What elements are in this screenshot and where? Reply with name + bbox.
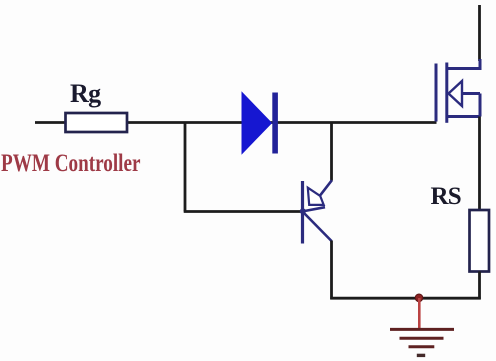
svg-text:RS: RS bbox=[431, 183, 461, 210]
resistor Rg bbox=[66, 113, 128, 132]
wire: source rail down to RS bbox=[478, 117, 481, 211]
wire: drain rail to top bbox=[478, 5, 481, 61]
svg-text:Rg: Rg bbox=[70, 79, 101, 108]
transistor Q1 emitter arrow (points to base = PNP) bbox=[308, 188, 324, 205]
ground bar 2 bbox=[400, 337, 444, 340]
diode D1 anode triangle bbox=[242, 93, 272, 154]
node: junction at Rg output, branch to Q1 base bbox=[184, 123, 187, 212]
node: junction diode cathode, branch down to Q1 emitter bbox=[330, 123, 333, 181]
transistor Q1 emitter lead lower segment bbox=[303, 207, 325, 211]
wire: Rg output to MOSFET gate (main horizontal net) bbox=[126, 121, 437, 124]
wire: bottom rail bbox=[330, 297, 480, 300]
ground bar 3 bbox=[409, 345, 435, 348]
wire: branch to Q1 base bbox=[184, 210, 302, 213]
wire: Q1 collector down to bottom rail bbox=[330, 241, 333, 300]
diode D1 cathode bar bbox=[272, 93, 278, 154]
ground stem bbox=[418, 298, 421, 329]
MOSFET Q2 channel bar bbox=[445, 63, 448, 123]
svg-text:PWM Controller: PWM Controller bbox=[1, 150, 141, 177]
MOSFET Q2 body-source vertical bbox=[479, 94, 482, 117]
MOSFET Q2 body arrow bbox=[449, 81, 463, 106]
MOSFET Q2 gate bar bbox=[435, 64, 438, 122]
transistor Q1 emitter lead upper segment bbox=[320, 180, 332, 196]
wire: input from PWM controller to Rg bbox=[35, 121, 66, 124]
resistor RS bbox=[470, 210, 490, 272]
ground bar 1 bbox=[390, 328, 454, 331]
wire: RS bottom to bottom rail bbox=[478, 272, 481, 300]
MOSFET Q2 source stub bbox=[447, 115, 480, 118]
ground bar 4 bbox=[417, 354, 425, 357]
node: ground junction dot bbox=[415, 294, 423, 302]
transistor Q1 (PNP) base bar bbox=[301, 181, 304, 244]
MOSFET Q2 body stub bbox=[462, 92, 481, 95]
MOSFET Q2 drain stub bbox=[447, 59, 480, 69]
transistor Q1 base junction blob bbox=[300, 208, 306, 214]
transistor Q1 collector lead bbox=[303, 212, 332, 241]
